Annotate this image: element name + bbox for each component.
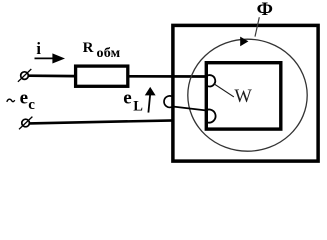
label Rобм — [83, 40, 121, 61]
emf arrow eL — [145, 87, 156, 113]
wire bottom — [29, 120, 174, 123]
resistor Rобм box — [76, 66, 128, 86]
flux path ellipse — [188, 39, 307, 151]
svg-text:L: L — [133, 99, 143, 115]
svg-text:W: W — [234, 87, 252, 107]
emf label eL — [123, 87, 143, 114]
winding back loop (left of core) — [164, 96, 172, 107]
svg-text:e: e — [20, 87, 28, 108]
current arrow — [35, 53, 66, 63]
terminal T2 (bottom input) — [19, 117, 32, 130]
flux direction arrowhead — [240, 37, 248, 47]
svg-text:e: e — [123, 87, 131, 108]
winding W turn 2 (bottom loop) — [206, 109, 216, 122]
svg-text:Ф: Ф — [257, 0, 273, 20]
svg-text:R: R — [83, 40, 94, 56]
winding wire middle — [172, 106, 206, 110]
leader line to W — [214, 84, 234, 97]
wire top-left — [28, 74, 75, 77]
source label ~ ec — [7, 87, 36, 113]
core window inner square — [206, 63, 280, 129]
svg-text:обм: обм — [97, 46, 121, 61]
terminal T1 (top input) — [18, 69, 31, 82]
svg-text:c: c — [28, 97, 35, 113]
winding W turn 1 (top loop) — [206, 75, 215, 86]
svg-text:i: i — [36, 39, 41, 58]
leader line to Ф — [255, 17, 259, 36]
wire resistor to core — [128, 75, 206, 78]
core outer square — [173, 25, 318, 161]
